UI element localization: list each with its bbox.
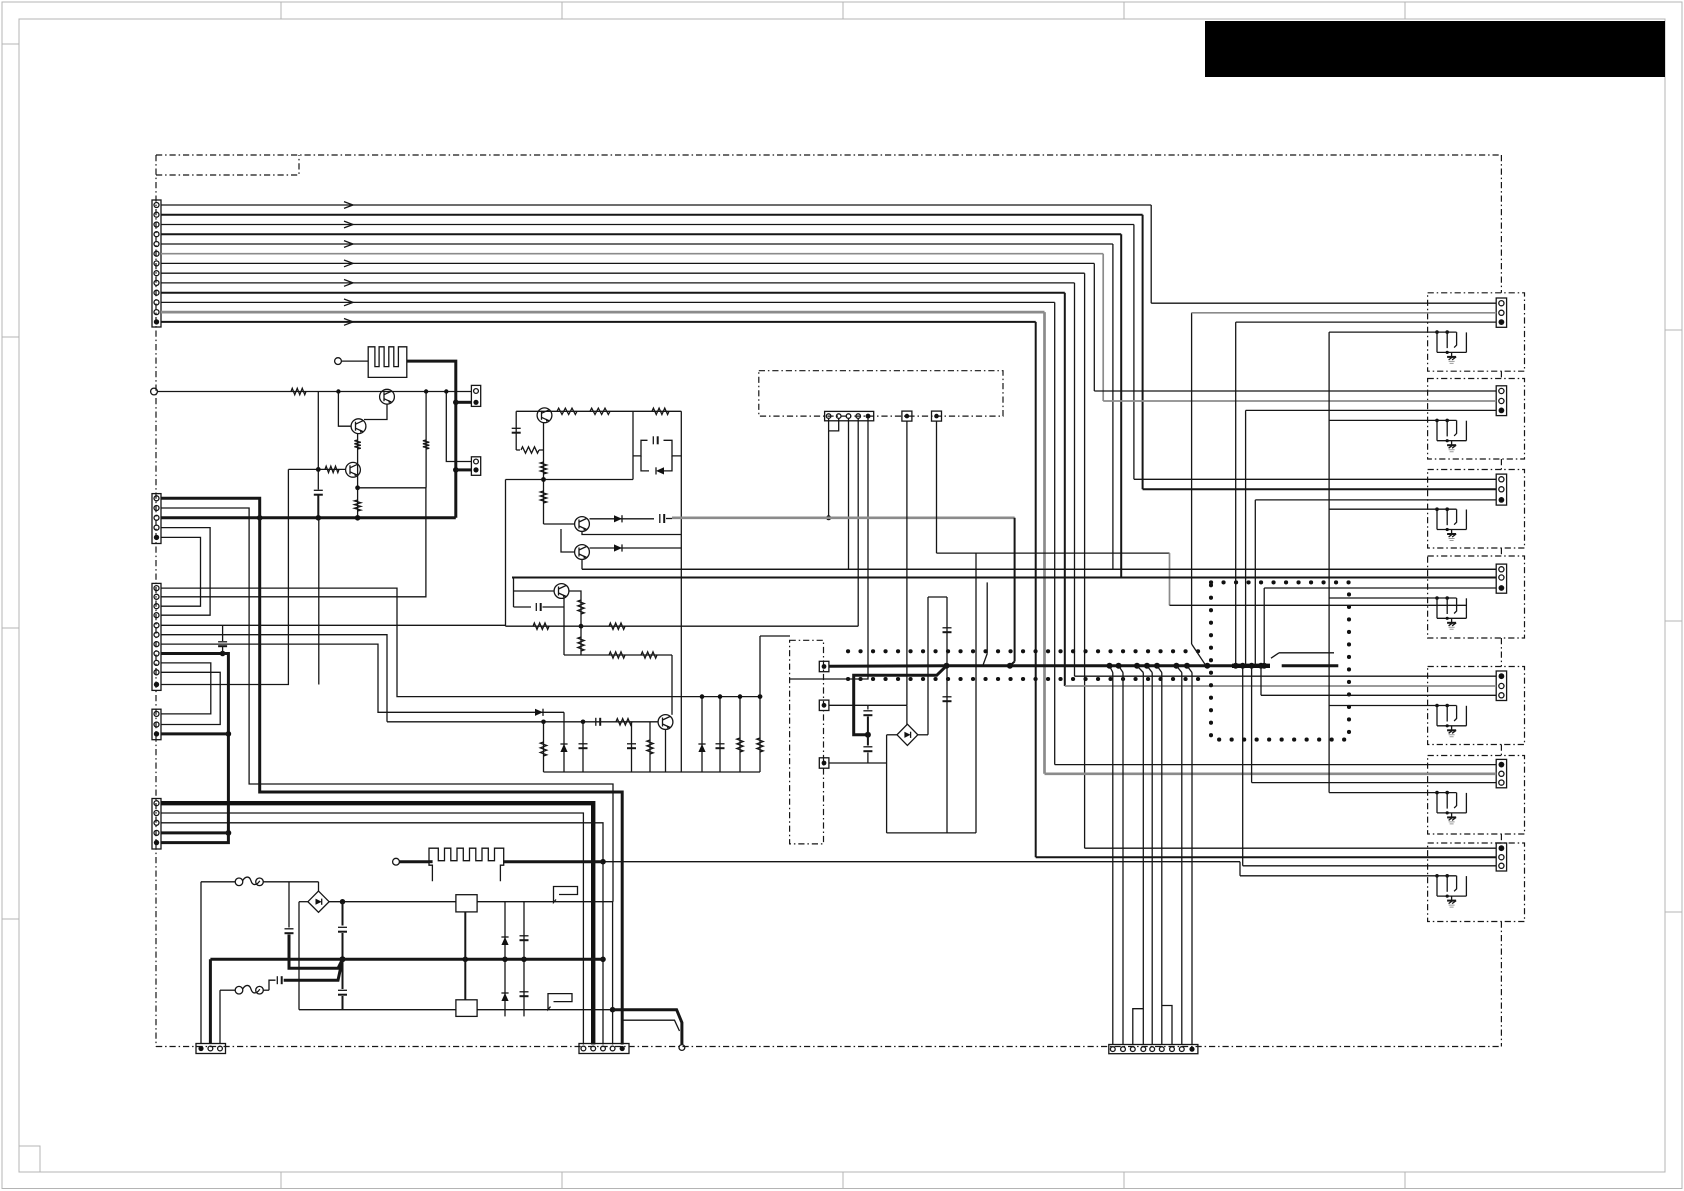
wire CN8 pin7 bracket jog (1162, 1006, 1172, 1045)
wire CN10 drop to gray bus (828, 431, 830, 518)
note flag F2 (548, 994, 572, 1010)
wire CN10 pin4 drop (857, 419, 859, 627)
wire CN7 pin4 (thick) (161, 831, 228, 834)
component ladder to ground rail (543, 722, 545, 772)
relay contact gap wire lower heavy (1282, 664, 1339, 667)
earth pigtail (thick) (613, 1010, 682, 1045)
wire harness W12 vertical drop (1043, 312, 1046, 774)
node D (541, 477, 546, 482)
pad terminal P1 (902, 411, 912, 421)
wire harness W13 horizontal run (161, 321, 1036, 323)
wire CN10 pin5 drop (790, 419, 868, 680)
wire bus to CN8 pin 9 (1187, 666, 1192, 673)
connector CN4 5-pin (152, 494, 161, 544)
connector CN7 5-pin (152, 799, 161, 850)
drop wire x505 (505, 480, 507, 627)
thermal fuse block heater unit 3 (1436, 509, 1438, 529)
frame zone tick marks left (2, 43, 19, 45)
wire Q5 emitter link (582, 532, 681, 535)
wire harness W6 horizontal run (161, 253, 1103, 255)
relay coil link (thick) (464, 912, 466, 1000)
wire harness W12 feed to heater connector (1045, 772, 1497, 775)
wire Q1 emitter to Q2 (364, 404, 387, 419)
wire harness W8 horizontal run (161, 272, 1085, 274)
live branch loop (thick) (854, 666, 947, 735)
signal direction arrows on harness (344, 202, 353, 209)
bias rail wire (158, 391, 472, 393)
transistor Q1 (380, 389, 395, 404)
wire CN4 pin5 to CN5 (161, 537, 201, 606)
capacitor C3 (512, 427, 521, 429)
connector CN3 2-pin (471, 457, 480, 476)
snubber loop with C4 and D1 (633, 440, 648, 456)
heater unit 5 dash-dot enclosure (1428, 667, 1525, 745)
wire harness W1 horizontal run (161, 204, 1151, 206)
wire harness W1 vertical drop (1150, 205, 1152, 303)
ground rail (544, 771, 761, 773)
wire CN4 pin4 to CN5 (161, 528, 210, 616)
wire harness W10 feed to heater connector (1065, 685, 1496, 687)
wire thick return drop (223, 654, 229, 833)
wire F1 riser (200, 882, 202, 1044)
wire riser to stub (759, 636, 761, 697)
main unit dash-dot boundary bottom edge (156, 1046, 1501, 1048)
diode ladder D5 D6 (504, 902, 506, 1017)
wire bus to CN8 pin 1 (1110, 666, 1113, 673)
bridge rectifier BR2 (897, 724, 918, 745)
wire bus to CN8 pin 5 (1147, 666, 1152, 673)
wire harness W4 vertical drop (1120, 234, 1122, 577)
wire harness W11 horizontal run (161, 301, 1055, 303)
wire bus to CN8 pin 6 (1157, 666, 1162, 673)
capacitor C2 (222, 625, 224, 641)
riser x633 (632, 411, 634, 479)
wire Q7 collector chain (569, 591, 581, 655)
wire harness W3 vertical drop (1133, 225, 1135, 480)
resistor R6 (557, 408, 577, 414)
wire P5 return (829, 762, 887, 764)
wire Q7 base (514, 590, 555, 592)
resistor R9 link (516, 449, 520, 451)
transistor Q7 (554, 584, 569, 599)
long rail drop x681 (680, 411, 682, 772)
heater unit 4 dash-dot enclosure (1428, 556, 1525, 638)
power inlet dash-dot box (middle) (790, 640, 824, 844)
heater element H1 comb (368, 347, 407, 378)
wire CN10 pin3 drop (848, 419, 850, 570)
terminal E3 (393, 858, 400, 865)
neutral bus (thick) (210, 958, 603, 961)
heater unit 3 dash-dot enclosure (1428, 470, 1525, 549)
transistor Q2 (351, 419, 366, 434)
relay RY2 (456, 1000, 477, 1017)
connector CN6 3-pin (152, 709, 161, 740)
pad terminal P4 (819, 700, 829, 710)
terminal E1 (335, 358, 342, 365)
wire harness W8 vertical drop (1084, 273, 1086, 848)
wire CN4 pin2 drop (161, 508, 613, 902)
sub-unit dash-dot box top-left (156, 155, 299, 175)
wire CN4 pin1 drop (thick) (161, 498, 622, 1044)
resistor R2 (354, 440, 360, 449)
wire CN5 pin2 (161, 488, 426, 597)
drive line y655 (564, 654, 672, 656)
wire harness W5 vertical drop (1112, 244, 1114, 569)
wire to bridge (318, 882, 320, 892)
resistor R14 (533, 623, 549, 629)
wire P3 live feed (thick) (829, 664, 947, 668)
wire Q4 emitter chain (543, 423, 545, 519)
wire CN7 pin3 (161, 823, 603, 1045)
DC rail positive right (477, 901, 612, 903)
wire Q6 emitter to sense line (581, 560, 583, 570)
sense line A (582, 568, 1496, 570)
bridge rectifier BR1 (308, 891, 329, 912)
wire P2 pad drop (936, 421, 938, 553)
feeds from bus risers to connectors (1236, 321, 1497, 323)
connector CN8 body (1109, 1045, 1198, 1054)
switch S2 lever inside dotted box (986, 582, 988, 653)
connector CN97 3-pin (1496, 843, 1506, 871)
connector CN91 3-pin (1496, 298, 1506, 327)
wire Q5 collector with D2 (590, 518, 655, 520)
wire harness W2 vertical drop (1142, 215, 1144, 490)
heater unit 7 dash-dot enclosure (1428, 843, 1525, 922)
wire BR1 left leg (299, 901, 308, 903)
resistor R5 (325, 466, 339, 472)
relay contact gap wire upper (1279, 652, 1334, 654)
wire link x947 top (928, 596, 947, 598)
transistor Q6 (575, 545, 590, 560)
thermal fuse block heater unit 5 (1436, 706, 1438, 726)
wire Q2 emitter chain (357, 433, 359, 518)
wire Q5 base (543, 519, 545, 524)
wire CN8 pin3 bracket jog (1133, 1009, 1144, 1045)
connector CN2 2-pin (471, 385, 480, 406)
sense line B (514, 577, 1497, 579)
transistor Q8 (658, 715, 673, 730)
resistor R3 (354, 500, 360, 511)
wire harness W5 feed to heater connector (582, 568, 1496, 570)
wire CN5 pin8 (thick return) (161, 652, 223, 655)
wire bus to CN8 pin 4 (1137, 666, 1143, 673)
capacitor C1 (317, 392, 319, 490)
wire P4 to bridge BR2 (829, 704, 907, 706)
wire harness W6 feed to heater connector (1103, 400, 1496, 402)
wire bus to CN8 pin 8 (1176, 666, 1181, 673)
wire bus to CN8 pin 2 (1119, 666, 1123, 673)
heater unit 6 dash-dot enclosure (1428, 756, 1525, 835)
heater unit 1 dash-dot enclosure (1428, 293, 1525, 371)
gray control bus (672, 516, 1015, 519)
wire BR2 left (887, 734, 897, 736)
wire H1 to distribution node (407, 361, 456, 518)
frame zone tick marks top (280, 2, 282, 19)
wire CN5 pin9 to CN6 (161, 663, 211, 714)
capacitor C9 input (269, 980, 276, 990)
node B (355, 485, 360, 490)
resistor R17 (641, 652, 657, 658)
wire harness W3 feed to heater connector (1134, 478, 1496, 480)
node C (316, 467, 321, 472)
wire CN7 pin1 mains live (extra thick) (161, 803, 593, 1044)
left drop x513 (513, 578, 515, 608)
resistor R15 (609, 623, 625, 629)
bus droppers to heater unit pins lower (1242, 666, 1244, 866)
wire harness W13 vertical drop (1035, 322, 1037, 857)
capacitor C5 polarized (659, 514, 661, 523)
wire Q6 base riser (561, 529, 575, 552)
DC rail positive (329, 901, 456, 903)
heater unit 2 dash-dot enclosure (1428, 379, 1525, 460)
fuse F2 (220, 989, 235, 991)
thermal fuse block heater unit 6 (1436, 793, 1438, 813)
wire CN5 pin11 to Q3 base (161, 469, 288, 684)
wire harness W7 horizontal run (161, 262, 1094, 264)
connector CN96 3-pin (1496, 759, 1506, 787)
connector CN95 3-pin (1496, 671, 1506, 701)
top rail wire (516, 410, 681, 412)
main unit dash-dot boundary top edge (156, 154, 1501, 156)
wire neutral to CN11 pin2 (209, 959, 212, 1043)
left rail drop (515, 411, 517, 450)
capacitor C12 (867, 705, 869, 709)
wire CN7 pin5 (thick) (161, 833, 228, 843)
main live bus wire (947, 664, 1271, 667)
bus junction nodes (944, 663, 950, 669)
title block redacted black bar (1205, 21, 1665, 77)
connector CN94 3-pin (1496, 564, 1506, 593)
switch S1 lever to bus (1191, 313, 1193, 644)
heater unit 7 thermal feed (603, 861, 1240, 863)
filter chain center (342, 902, 344, 926)
capacitor C8 input (288, 882, 290, 928)
wire harness W9 feed to heater connector (1075, 675, 1497, 677)
terminal E2 (151, 388, 158, 395)
wire harness W6 vertical drop (1102, 254, 1104, 401)
wire CN5 pin6 staircase (161, 635, 387, 722)
wire harness W10 vertical drop (1064, 293, 1066, 686)
wire CN7 pin2 (161, 813, 583, 1045)
connector CN93 3-pin (1496, 474, 1506, 505)
signal line y626 (506, 625, 859, 627)
wire CN5 pin10 to CN6 (161, 672, 220, 724)
wire Q6 collector with D3 (590, 547, 682, 549)
wire harness W2 horizontal run (161, 214, 1143, 216)
wire E3 to H2 (399, 860, 429, 863)
wire Q1 base (338, 392, 351, 427)
thermal fuse block heater unit 7 (1436, 876, 1438, 896)
DC rail return (299, 1009, 456, 1011)
wire CN10 pins1+2 join (828, 419, 830, 431)
diode D4 line (535, 709, 543, 716)
wire harness W4 feed to heater connector (512, 577, 1496, 579)
wire harness W11 vertical drop (1054, 302, 1056, 764)
wire harness W7 feed to heater connector (1094, 390, 1496, 392)
resistor R7 (590, 408, 610, 414)
frame zone tick marks bottom (280, 1172, 282, 1189)
wire harness W2 feed to heater connector (1143, 488, 1497, 490)
resistor R16 (609, 652, 625, 658)
main live bus heavy section (1232, 664, 1270, 668)
thermal element shared feed riser (1328, 332, 1330, 792)
connector CN11 3-pin (196, 1044, 226, 1054)
connector CN10 5-pin (825, 411, 874, 420)
wire x976 drop (975, 553, 977, 833)
capacitor ladder C10 C11 (523, 902, 525, 1017)
gray bus drop to main bus (1014, 518, 1016, 662)
wire harness W1 feed to heater connector (1151, 302, 1496, 304)
connector CN92 3-pin (1496, 386, 1506, 416)
capacitor C13 (867, 735, 869, 746)
transistor Q3 (346, 462, 361, 477)
mid link wire (506, 479, 634, 481)
pad terminal P5 (819, 758, 829, 768)
capacitor C6 line (514, 606, 532, 608)
heater connector CN91 pin2 feed (1192, 312, 1497, 314)
earth pigtail parallel thin (622, 1020, 679, 1031)
main unit dash-dot boundary right edge segments (1500, 155, 1502, 293)
pad terminal P2 (932, 411, 942, 421)
wire CN5 pin5 (signal) (161, 624, 506, 626)
frame zone tick marks right (1665, 329, 1682, 331)
wire CN3 pin1 feed (446, 392, 471, 462)
wire x947 drop (946, 597, 948, 833)
main unit dash-dot boundary left edge (155, 155, 157, 1047)
capacitor C7 (595, 718, 597, 726)
resistor R13 (578, 637, 584, 651)
wire harness W13 feed to heater connector (1036, 856, 1497, 858)
earth terminal (679, 1045, 685, 1051)
control panel dash-dot box (top middle) (759, 371, 1003, 416)
base line Q8 (387, 721, 658, 723)
wire harness W5 horizontal run (161, 243, 1113, 245)
stub riser from bus (318, 518, 320, 685)
heater element H2 comb (429, 848, 504, 881)
wire CN4-G pin4 drop (612, 902, 614, 1045)
bus risers to heater unit bottom pins (1235, 322, 1237, 666)
node dots on distribution drop (453, 400, 459, 406)
wire harness W8 feed to heater connector (1085, 847, 1497, 849)
wire CN5 pin1 staircase (161, 588, 760, 697)
wire harness W7 vertical drop (1093, 263, 1095, 391)
wire CN6 pin3 (thick) (161, 732, 228, 735)
wire harness W9 vertical drop (1074, 283, 1076, 676)
relay contact dotted enclosure (1211, 582, 1349, 739)
wire harness W10 horizontal run (161, 292, 1065, 294)
resistor R12 (578, 600, 584, 614)
wire BR2 right (918, 734, 928, 736)
connector CN5 11-pin (152, 583, 161, 690)
wire Q8 emitter (665, 729, 667, 772)
bus dotted line upper (848, 649, 1205, 653)
resistor R8 (652, 408, 669, 414)
wire harness W3 horizontal run (161, 224, 1134, 226)
wire harness W4 horizontal run (161, 233, 1121, 235)
wire bottom link y833 (887, 832, 976, 834)
pad terminal P3 (819, 661, 829, 671)
resistor R1 (291, 388, 306, 394)
wire CN7 pin4 vertical link (612, 901, 614, 903)
heater unit 4 auxiliary feed (937, 552, 1170, 554)
transistor Q4 (537, 408, 552, 423)
wire harness W12 horizontal run (161, 311, 1045, 314)
wire H2 output (thick) (503, 860, 603, 863)
ladder right group (701, 697, 703, 772)
bus dotted line lower (848, 677, 1207, 681)
note flag F1 (554, 887, 578, 903)
fuse F1 (201, 881, 235, 883)
wire feedback link (358, 487, 427, 489)
thermal fuse block heater unit 4 (1436, 598, 1438, 618)
resistor R11 (540, 491, 546, 503)
wire harness W11 feed to heater connector (1055, 764, 1497, 766)
node A (336, 389, 340, 393)
resistor R4 on feedback drop (425, 392, 427, 488)
resistor R10 (540, 462, 546, 474)
wire F2 riser (219, 990, 221, 1043)
resistor R18 (616, 719, 632, 725)
wire P1 pad drop (906, 421, 908, 705)
relay RY1 (456, 895, 477, 912)
thermal fuse block heater unit 1 (1436, 332, 1438, 352)
wire harness W9 horizontal run (161, 282, 1075, 284)
wire Q3 base (288, 468, 345, 470)
transistor Q5 (575, 517, 590, 532)
connector CN1 13-pin (152, 200, 161, 327)
connector CN12 5-pin (579, 1044, 629, 1054)
frame corner stamp cell bottom-left (19, 1146, 40, 1172)
wire CN5 pin7 staircase (161, 644, 564, 712)
wire Q7 emitter (563, 598, 565, 607)
power bus PB1 (thick) (161, 516, 456, 519)
drop to Q8 (671, 655, 673, 715)
thermal fuse block heater unit 2 (1436, 420, 1438, 440)
